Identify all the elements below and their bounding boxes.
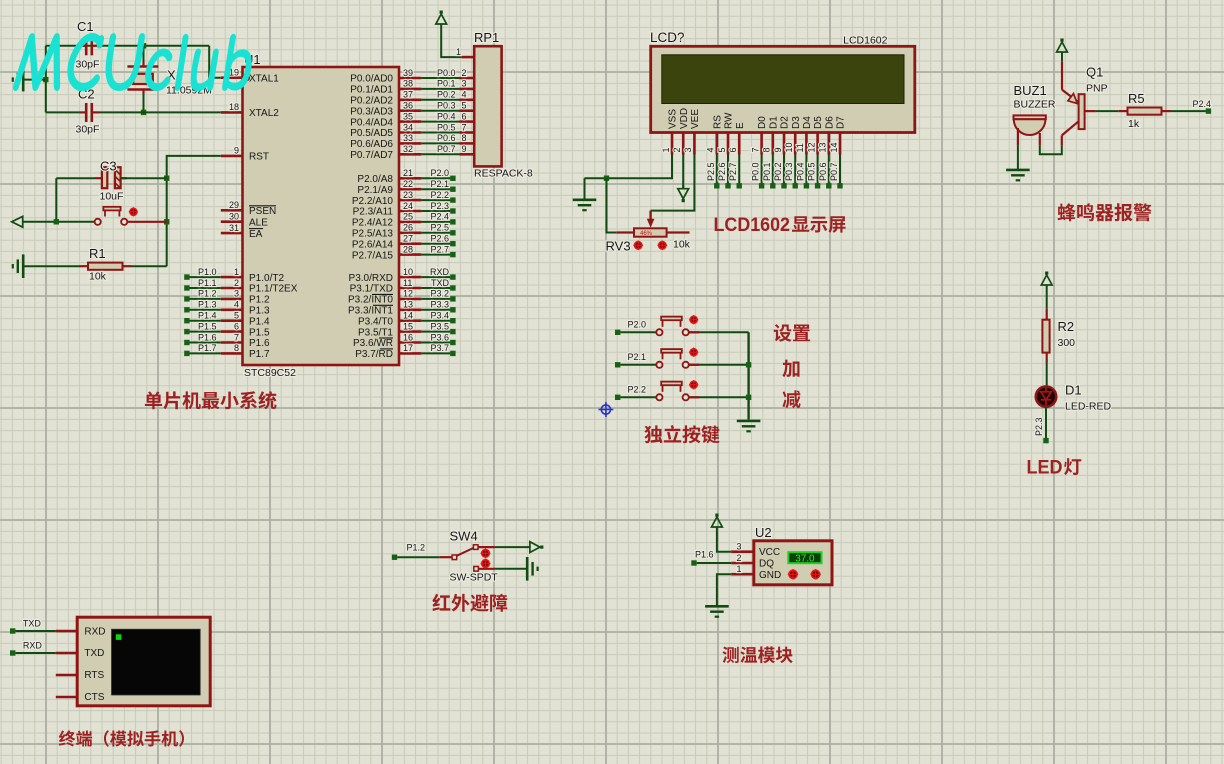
svg-text:4: 4 (706, 147, 716, 152)
svg-text:36: 36 (403, 101, 413, 111)
svg-text:P2.7: P2.7 (430, 244, 449, 254)
label 设置 (774, 324, 810, 342)
svg-text:P2.2: P2.2 (430, 190, 449, 200)
svg-text:P2.1: P2.1 (430, 179, 449, 189)
temperature module U2 DS18B20 (731, 525, 832, 585)
pin 22 P2.1 (357, 179, 421, 196)
svg-text:P2.2/A10: P2.2/A10 (352, 196, 394, 207)
ground (U2) (705, 605, 729, 608)
svg-text:D3: D3 (791, 116, 802, 129)
wire keys bus (747, 332, 749, 419)
svg-text:P1.2: P1.2 (407, 543, 426, 553)
ground (buzzer) (1006, 169, 1030, 172)
LCD pin 9 D2 (773, 116, 791, 155)
wire P1.2 (397, 556, 439, 558)
wire gnd tap (23, 79, 46, 81)
svg-text:LCD1602: LCD1602 (714, 215, 791, 236)
power arrow VCC (U2) (715, 514, 718, 517)
wire P0.2 (421, 99, 459, 101)
svg-text:VDD: VDD (679, 108, 690, 129)
svg-text:U2: U2 (755, 525, 772, 540)
svg-text:8: 8 (762, 147, 772, 152)
pin 5 P1.4 (221, 311, 270, 328)
junction keys P2.2 (746, 395, 751, 400)
microcontroller U1 STC89C52 body (243, 52, 400, 379)
svg-text:10k: 10k (89, 271, 107, 283)
svg-text:P0.3: P0.3 (437, 101, 456, 111)
wire P0.1 (LCD) (772, 155, 774, 186)
svg-text:P0.5: P0.5 (807, 162, 817, 181)
node RXD (430, 267, 456, 280)
wire button row left (23, 221, 95, 223)
svg-text:P2.0: P2.0 (430, 168, 449, 178)
svg-text:12: 12 (806, 142, 816, 152)
svg-text:5: 5 (234, 311, 239, 321)
svg-text:P2.1: P2.1 (628, 352, 647, 362)
svg-text:P2.5/A13: P2.5/A13 (352, 229, 394, 240)
terminal (virtual phone) body (56, 617, 210, 706)
svg-text:P3.7: P3.7 (430, 343, 449, 353)
svg-text:EA: EA (249, 229, 263, 240)
wire SW4 top (495, 546, 528, 548)
wire P0.2 (LCD) (783, 155, 785, 186)
junction crystal bottom (141, 110, 146, 115)
node P1.6 (184, 332, 216, 345)
wire RST (167, 156, 221, 266)
svg-text:30pF: 30pF (76, 124, 100, 136)
pin 29 PSEN (221, 200, 276, 217)
ground (R1) (22, 254, 25, 278)
watermark MCUclub (13, 33, 252, 91)
wire P2.1 (620, 364, 655, 366)
svg-text:P3.6: P3.6 (430, 332, 449, 342)
wire P0.7 (LCD) (839, 155, 841, 186)
label LED灯 (1027, 458, 1082, 479)
node P2.4 (430, 212, 455, 225)
junction button row (54, 219, 59, 224)
svg-text:P0.2: P0.2 (437, 90, 456, 100)
ground (crystal) (22, 68, 25, 92)
svg-text:P2.2: P2.2 (628, 385, 647, 395)
svg-text:P1.6: P1.6 (249, 338, 270, 349)
svg-text:P0.4: P0.4 (795, 162, 805, 181)
junction RST-button (164, 219, 169, 224)
svg-text:P0.7: P0.7 (437, 144, 456, 154)
node P2.0 (430, 168, 455, 181)
wire VSS (585, 155, 673, 179)
LED D1 (1036, 383, 1112, 413)
svg-text:25: 25 (403, 212, 413, 222)
svg-text:P1.2: P1.2 (198, 289, 217, 299)
svg-text:4: 4 (234, 300, 239, 310)
svg-text:P1.5: P1.5 (198, 321, 217, 331)
svg-text:16: 16 (403, 332, 413, 342)
svg-text:VCC: VCC (759, 547, 780, 558)
svg-text:D5: D5 (813, 116, 824, 129)
wire P2.5 (421, 232, 450, 234)
terminal pin TXD (56, 652, 77, 655)
svg-text:37: 37 (403, 90, 413, 100)
node P3.6 (430, 332, 455, 345)
svg-text:3: 3 (462, 79, 467, 89)
node P2.3 (1034, 417, 1049, 443)
node P2.5 (LCD) (706, 162, 720, 188)
svg-text:8: 8 (462, 133, 467, 143)
wire P0.1 (421, 88, 459, 90)
label 蜂鸣器报警 (1058, 203, 1152, 221)
svg-text:P3.2: P3.2 (430, 289, 449, 299)
svg-text:LED-RED: LED-RED (1065, 401, 1112, 413)
svg-text:RESPACK-8: RESPACK-8 (474, 168, 533, 180)
svg-text:1: 1 (736, 564, 741, 574)
node P2.2 (615, 385, 646, 401)
svg-text:P2.6/A14: P2.6/A14 (352, 239, 394, 250)
svg-text:P0.5: P0.5 (437, 122, 456, 132)
svg-text:D0: D0 (757, 116, 768, 129)
label 加 (782, 360, 799, 378)
svg-text:7: 7 (750, 147, 760, 152)
wire buzzer gnd (1017, 146, 1019, 170)
LCD pin 7 D0 (750, 116, 768, 155)
wire P2.0 (620, 331, 655, 333)
resistor-pack pin 4 (460, 90, 475, 100)
svg-text:P1.7: P1.7 (249, 349, 270, 360)
svg-text:ALE: ALE (249, 217, 268, 228)
pin 9 RST (221, 146, 269, 163)
wire C3 right (121, 177, 167, 179)
pin 31 EA (221, 223, 263, 240)
svg-text:P1.0: P1.0 (198, 267, 217, 277)
pin 10 P3.0/RXD (349, 267, 422, 284)
svg-text:4: 4 (462, 90, 467, 100)
pin 38 P0.1 (350, 79, 421, 96)
power arrow VDD (down) (682, 199, 685, 202)
svg-text:P1.0/T2: P1.0/T2 (249, 273, 284, 284)
svg-text:P2.0: P2.0 (628, 320, 647, 330)
wire VEE (651, 155, 695, 211)
svg-text:P1.3: P1.3 (198, 300, 217, 310)
svg-text:D2: D2 (780, 116, 791, 129)
junction RST-C3 (164, 176, 169, 181)
node TXD (431, 278, 456, 291)
svg-text:34: 34 (403, 122, 413, 132)
node P0.0 (LCD) (751, 162, 765, 188)
svg-text:R1: R1 (89, 246, 106, 261)
svg-text:P2.4/A12: P2.4/A12 (352, 218, 394, 229)
svg-text:P1.6: P1.6 (198, 332, 217, 342)
wire buzzer-collector (1040, 146, 1062, 155)
wire R1 right (132, 265, 167, 267)
wire SW4 bottom (495, 568, 527, 570)
switch SW4 SW-SPDT (439, 529, 498, 584)
svg-text:P3.3: P3.3 (430, 300, 449, 310)
wire XTAL1 drop (209, 46, 221, 78)
wire R1 left (23, 265, 79, 267)
node P2.2 (430, 190, 455, 203)
svg-text:P0.4/AD4: P0.4/AD4 (350, 117, 393, 128)
svg-text:LCD1602: LCD1602 (843, 35, 888, 47)
node P3.5 (430, 321, 455, 334)
svg-text:10uF: 10uF (100, 191, 124, 203)
label 单片机最小系统 (145, 391, 277, 409)
label 独立按键 (644, 425, 719, 443)
svg-text:6: 6 (728, 147, 738, 152)
svg-text:RV3: RV3 (606, 239, 631, 254)
svg-text:P1.1/T2EX: P1.1/T2EX (249, 284, 298, 295)
wire P0.4 (LCD) (805, 155, 807, 186)
wire P2.0 right (689, 331, 749, 333)
LCD pin 6 E (728, 122, 746, 155)
wire P0.6 (LCD) (828, 155, 830, 186)
resistor-pack pin 9 (460, 144, 475, 154)
svg-text:E: E (735, 122, 746, 129)
svg-text:P2.0/A8: P2.0/A8 (357, 174, 393, 185)
svg-text:P0.0: P0.0 (751, 162, 761, 181)
svg-text:38: 38 (403, 79, 413, 89)
svg-text:5: 5 (717, 147, 727, 152)
node P2.6 (LCD) (717, 162, 731, 188)
U2 display 37.0 (788, 552, 821, 564)
pin 30 ALE (221, 212, 268, 229)
svg-text:39: 39 (403, 68, 413, 78)
pin 4 P1.3 (221, 300, 270, 317)
junction left bus gnd (43, 77, 48, 82)
svg-text:30: 30 (229, 212, 239, 222)
pin 13 P3.3/INT1 (348, 300, 421, 317)
wire P1.6 (697, 562, 732, 564)
button marker P2.2 (690, 381, 697, 388)
pin 7 P1.6 (221, 332, 270, 349)
svg-text:RXD: RXD (430, 267, 450, 277)
svg-text:P1.1: P1.1 (198, 278, 217, 288)
RV3 button - (635, 242, 642, 249)
svg-text:P0.1/AD1: P0.1/AD1 (350, 85, 393, 96)
resistor-pack pin 3 (460, 79, 475, 89)
svg-text:STC89C52: STC89C52 (244, 367, 296, 379)
node P1.0 (184, 267, 216, 280)
resistor R1 (79, 246, 132, 283)
svg-text:TXD: TXD (431, 278, 450, 288)
LCD pin 8 D1 (762, 116, 780, 155)
svg-text:P2.5: P2.5 (706, 162, 716, 181)
svg-text:P1.3: P1.3 (249, 306, 270, 317)
pin 32 P0.7 (350, 144, 421, 161)
node P2.7 (LCD) (728, 162, 742, 188)
node P0.1 (LCD) (762, 162, 776, 188)
svg-text:GND: GND (759, 570, 781, 581)
node P2.6 (430, 234, 455, 247)
svg-text:P3.5: P3.5 (430, 321, 449, 331)
svg-text:P0.6/AD6: P0.6/AD6 (350, 139, 393, 150)
svg-text:R5: R5 (1128, 91, 1145, 106)
wire RV3 vertical (607, 178, 617, 232)
svg-text:P2.3: P2.3 (430, 201, 449, 211)
svg-text:15: 15 (403, 321, 413, 331)
svg-text:2: 2 (234, 278, 239, 288)
svg-text:P3.1/TXD: P3.1/TXD (350, 284, 393, 295)
node P3.7 (430, 343, 455, 356)
svg-text:13: 13 (818, 142, 828, 152)
svg-text:P2.7/A15: P2.7/A15 (352, 250, 394, 261)
svg-text:XTAL1: XTAL1 (249, 73, 279, 84)
wire P2.5 (LCD) (716, 155, 718, 186)
svg-text:9: 9 (234, 146, 239, 156)
node P2.1 (615, 352, 646, 368)
svg-text:BUZZER: BUZZER (1014, 99, 1056, 111)
wire P2.0 (421, 177, 450, 179)
pin 26 P2.5 (352, 223, 422, 240)
svg-text:SW4: SW4 (450, 529, 478, 544)
pin 16 P3.6/WR (353, 332, 421, 349)
power arrow VCC (buzzer) (1060, 39, 1063, 42)
svg-text:46%: 46% (640, 231, 653, 237)
LCD pin 4 RS (706, 115, 724, 155)
node P0.5 (LCD) (807, 162, 821, 188)
svg-text:P1.7: P1.7 (198, 343, 217, 353)
label LCD1602显示屏 (714, 215, 846, 236)
pin 25 P2.4 (352, 212, 422, 229)
svg-text:29: 29 (229, 200, 239, 210)
wire R5-P2.4 (1171, 110, 1206, 112)
svg-text:31: 31 (229, 223, 239, 233)
svg-text:P2.6: P2.6 (717, 162, 727, 181)
LCD pin 11 D4 (795, 116, 813, 155)
wire VDD (682, 155, 684, 189)
svg-text:9: 9 (462, 144, 467, 154)
origin marker (599, 402, 614, 417)
pin 27 P2.6 (352, 234, 422, 251)
svg-text:8: 8 (234, 343, 239, 353)
wire P2.7 (421, 254, 450, 256)
capacitor C2 (76, 87, 100, 136)
wire P2.6 (LCD) (727, 155, 729, 186)
junction keys P2.1 (746, 362, 751, 367)
label 红外避障 (432, 594, 507, 612)
push button P2.1 (656, 349, 689, 368)
wire VSS gnd drop (584, 178, 586, 200)
svg-text:2: 2 (672, 147, 682, 152)
ground (keys) (737, 420, 761, 423)
wire P0.4 (421, 121, 459, 123)
node P2.4 (1192, 99, 1211, 114)
wire RP1 pin1 (441, 28, 462, 58)
switch button down (482, 560, 489, 567)
pin 23 P2.2 (352, 190, 422, 207)
svg-text:P2.3: P2.3 (1034, 417, 1044, 436)
svg-text:DQ: DQ (759, 559, 774, 570)
resistor-pack pin 2 (460, 68, 475, 78)
node P0.2 (LCD) (773, 162, 787, 188)
svg-text:12: 12 (403, 289, 413, 299)
svg-text:P1.6: P1.6 (695, 550, 714, 560)
svg-text:32: 32 (403, 144, 413, 154)
node P2.3 (430, 201, 455, 214)
node P3.3 (430, 300, 455, 313)
potentiometer RV3 (606, 211, 691, 254)
svg-text:26: 26 (403, 223, 413, 233)
wire P2.1 (421, 188, 450, 190)
svg-text:14: 14 (829, 142, 839, 152)
svg-text:P2.4: P2.4 (430, 212, 449, 222)
node P1.3 (184, 300, 216, 313)
terminal pin RXD (56, 630, 77, 633)
wire P0.7 (421, 153, 459, 155)
wire P2.3 (421, 210, 450, 212)
wire P1.1 (189, 287, 221, 289)
svg-text:3: 3 (234, 289, 239, 299)
svg-text:33: 33 (403, 133, 413, 143)
wire TXD (15, 630, 55, 632)
pin 39 P0.0 (350, 68, 421, 85)
button marker P2.0 (690, 316, 697, 323)
svg-text:7: 7 (462, 122, 467, 132)
svg-text:P3.5/T1: P3.5/T1 (358, 327, 393, 338)
resistor-pack pin 7 (460, 122, 475, 132)
svg-text:1: 1 (456, 47, 461, 57)
svg-text:5: 5 (462, 101, 467, 111)
svg-text:P2.4: P2.4 (1192, 99, 1211, 109)
wire button right (127, 221, 166, 223)
svg-text:TXD: TXD (23, 619, 42, 629)
svg-text:RXD: RXD (23, 641, 43, 651)
pin 33 P0.6 (350, 133, 421, 150)
svg-text:P0.5/AD5: P0.5/AD5 (350, 128, 393, 139)
svg-text:1: 1 (661, 147, 671, 152)
svg-text:D1: D1 (768, 116, 779, 129)
power arrow VCC (LED) (1045, 272, 1048, 275)
svg-text:P1.4: P1.4 (198, 311, 217, 321)
wire C3 drop (55, 178, 57, 222)
push button P2.2 (656, 382, 689, 401)
resistor-pack pin 8 (460, 133, 475, 143)
pin 19 XTAL1 (221, 68, 279, 85)
wire left bus (45, 46, 47, 113)
wire P0.5 (421, 132, 459, 134)
wire P3.4 (421, 320, 450, 322)
svg-text:300: 300 (1058, 337, 1076, 349)
svg-text:9: 9 (773, 147, 783, 152)
node TXD (10, 619, 41, 634)
node P0.3 (LCD) (784, 162, 798, 188)
svg-text:D4: D4 (802, 116, 813, 129)
svg-text:P0.1: P0.1 (762, 162, 772, 181)
svg-text:18: 18 (229, 102, 239, 112)
wire RXD (15, 652, 55, 654)
pin 36 P0.3 (350, 101, 421, 118)
wire P0.0 (LCD) (761, 155, 763, 186)
push button RESET (95, 207, 128, 225)
svg-text:P3.4: P3.4 (430, 311, 449, 321)
LCD pin 12 D5 (806, 116, 824, 155)
buzzer BUZ1 (1014, 83, 1056, 146)
wire P0.0 (421, 77, 459, 79)
push button P2.0 (656, 317, 689, 336)
node P2.7 (430, 244, 455, 257)
capacitor C1 (76, 19, 100, 71)
pin 8 P1.7 (221, 343, 270, 360)
svg-text:28: 28 (403, 244, 413, 254)
svg-text:2: 2 (736, 553, 741, 563)
svg-text:P0.1: P0.1 (437, 79, 456, 89)
power arrow (SW4) (540, 546, 543, 549)
node P1.7 (184, 343, 216, 356)
svg-text:P3.3/INT1: P3.3/INT1 (348, 306, 393, 317)
LCD pin 14 D7 (829, 116, 847, 155)
pin 21 P2.0 (357, 168, 421, 185)
wire P2.1 right (689, 364, 749, 366)
wire Q1 emitter (1061, 56, 1063, 62)
svg-text:RP1: RP1 (474, 30, 499, 45)
